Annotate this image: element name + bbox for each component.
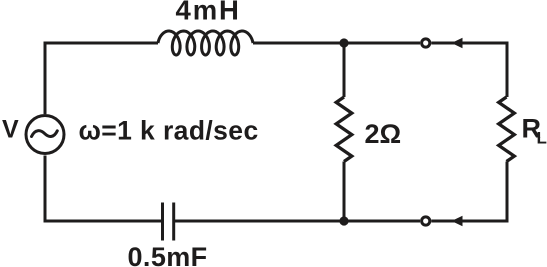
- svg-text:0.5mF: 0.5mF: [128, 242, 208, 267]
- svg-text:L: L: [537, 129, 547, 148]
- svg-text:4mH: 4mH: [176, 0, 241, 26]
- svg-text:ω=1 k rad/sec: ω=1 k rad/sec: [79, 116, 259, 146]
- svg-text:V: V: [2, 116, 19, 144]
- svg-text:2Ω: 2Ω: [365, 119, 402, 149]
